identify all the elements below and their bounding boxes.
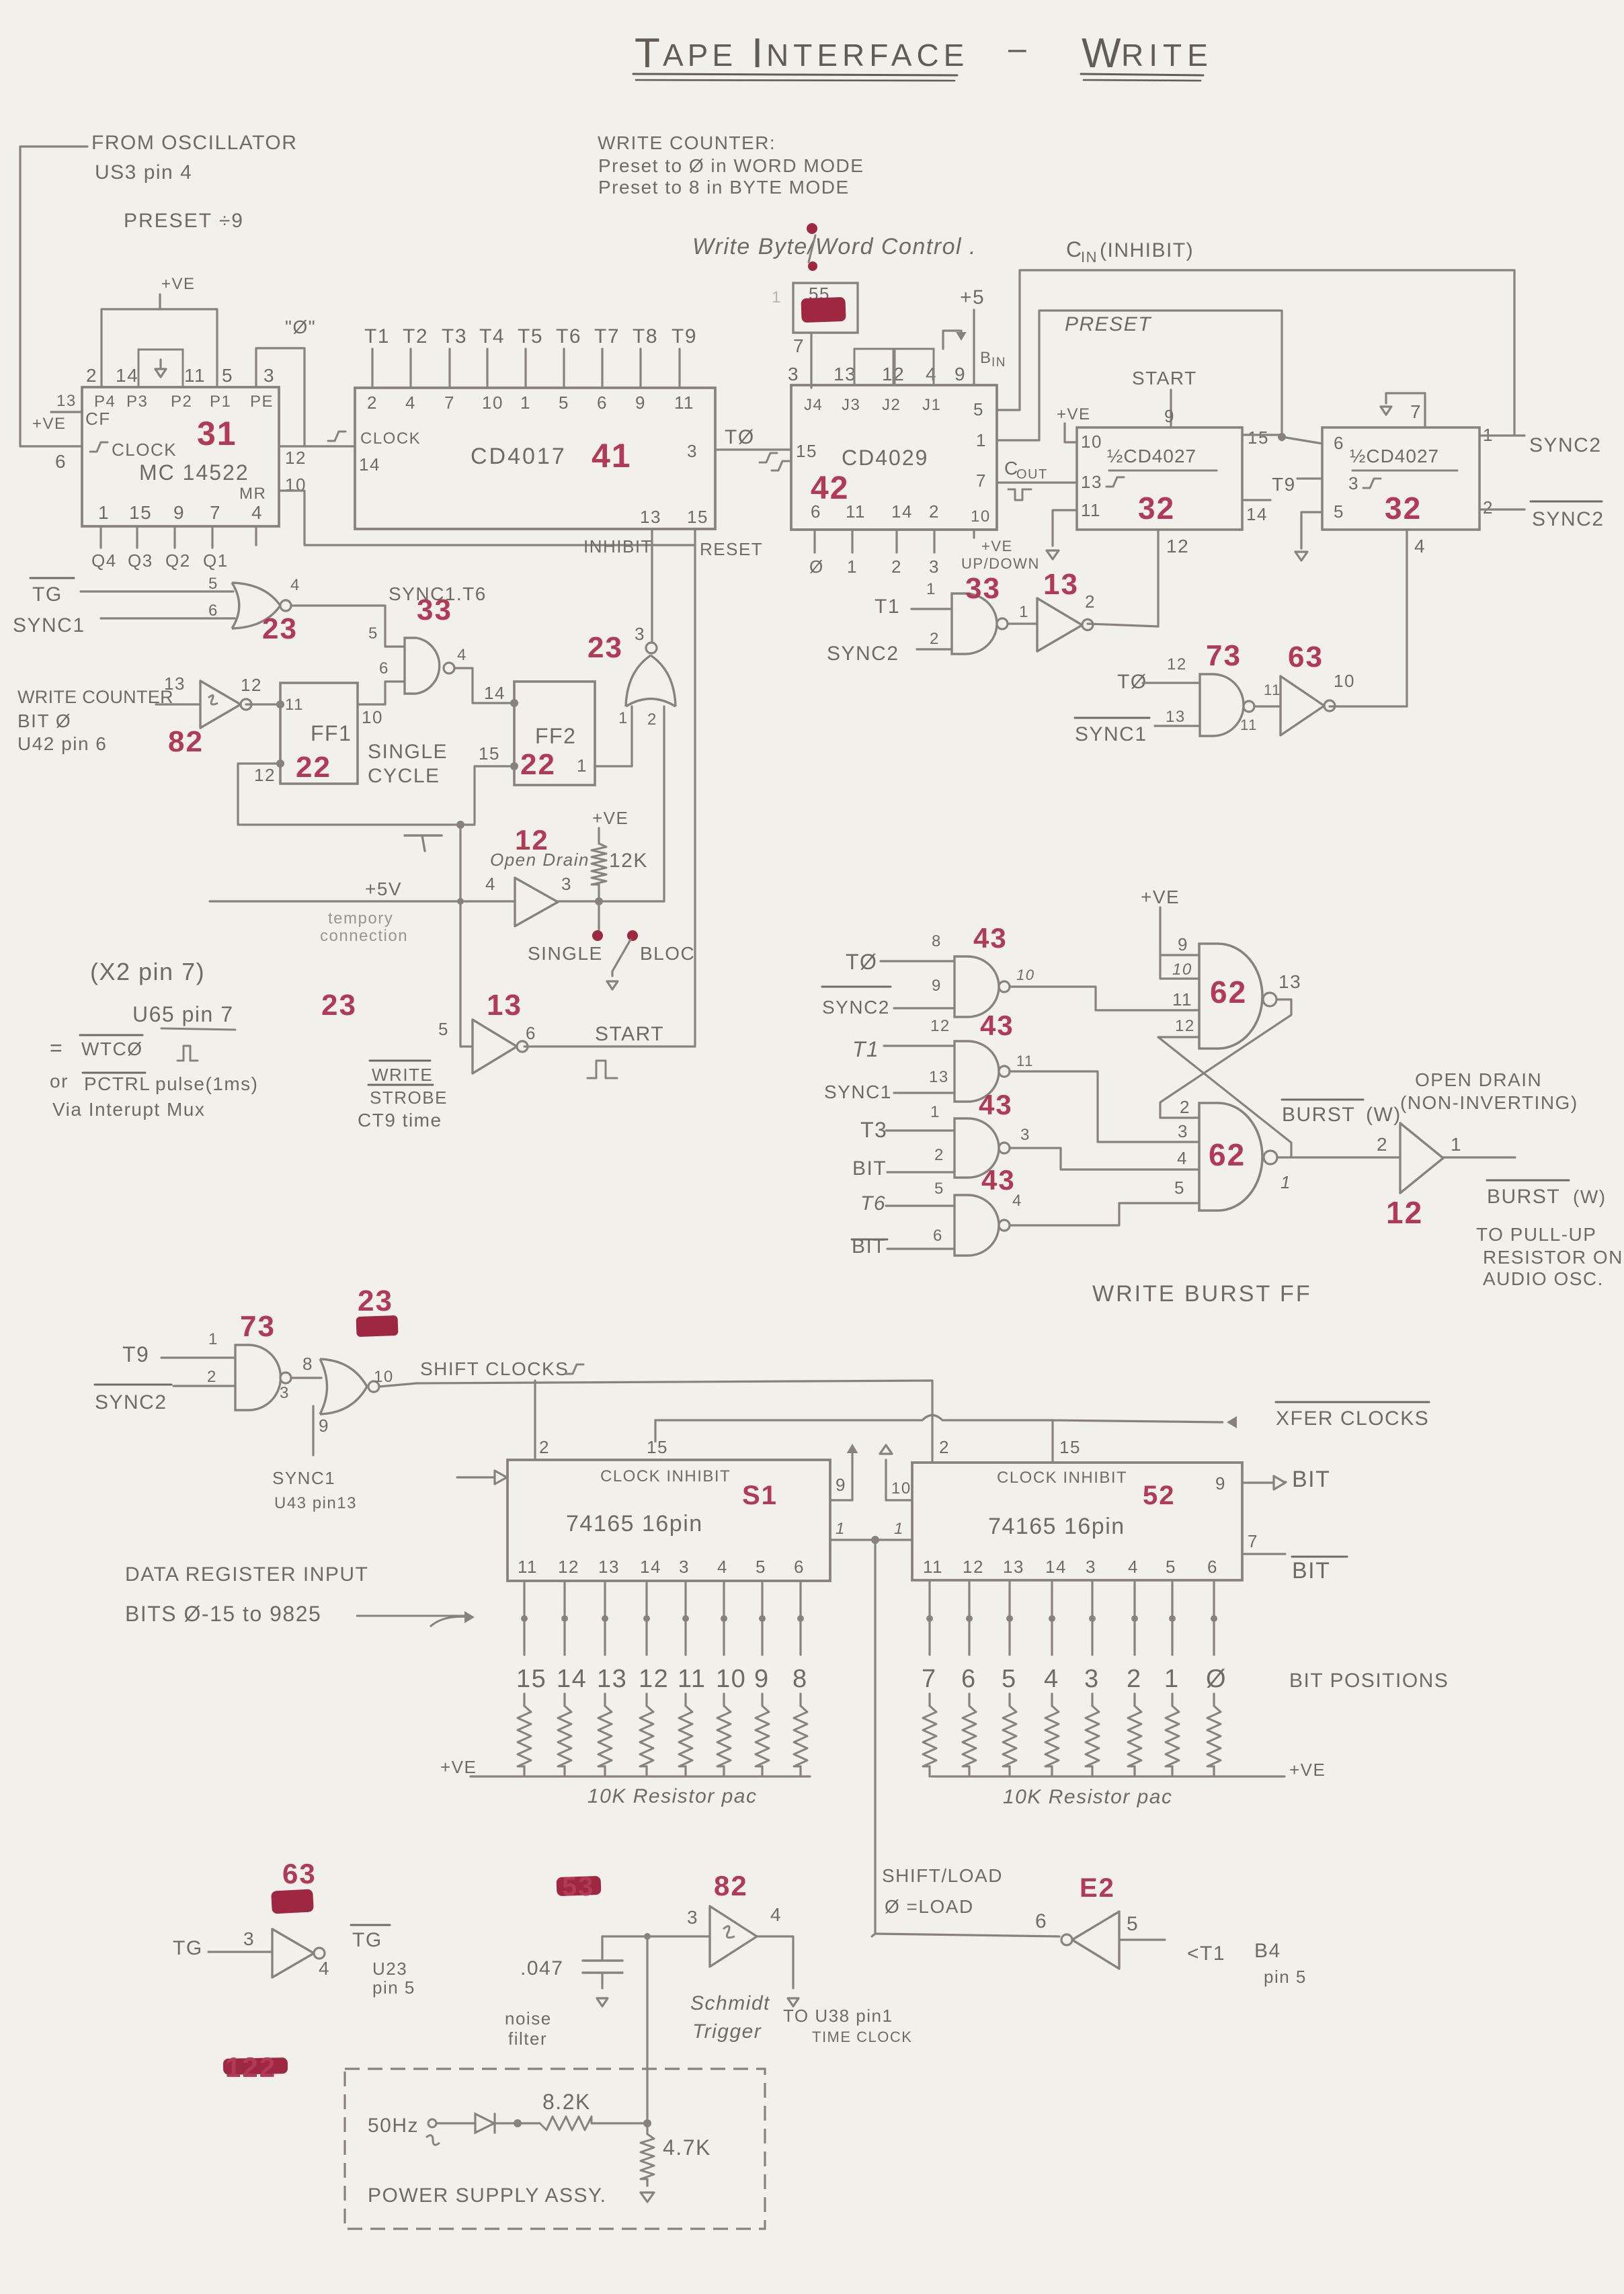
- svg-text:1: 1: [520, 393, 531, 413]
- svg-text:RESISTOR ON: RESISTOR ON: [1483, 1247, 1623, 1268]
- svg-text:6: 6: [55, 451, 67, 472]
- svg-text:14: 14: [557, 1665, 587, 1693]
- svg-text:POWER SUPPLY ASSY.: POWER SUPPLY ASSY.: [368, 2184, 606, 2207]
- svg-text:15: 15: [129, 502, 152, 523]
- svg-text:2: 2: [1127, 1665, 1142, 1693]
- svg-text:SYNC2: SYNC2: [827, 643, 899, 665]
- svg-text:IN: IN: [1081, 249, 1098, 265]
- svg-text:Q4: Q4: [91, 550, 117, 571]
- svg-text:PRESET: PRESET: [1065, 313, 1152, 335]
- svg-text:1: 1: [1164, 1665, 1180, 1693]
- svg-text:pin 5: pin 5: [372, 1977, 415, 1998]
- svg-text:62: 62: [1209, 1137, 1246, 1172]
- svg-text:+VE: +VE: [1289, 1760, 1326, 1780]
- svg-text:UP/DOWN: UP/DOWN: [961, 555, 1040, 572]
- svg-text:7: 7: [922, 1665, 937, 1693]
- svg-text:pin 5: pin 5: [1264, 1967, 1307, 1987]
- svg-text:T6: T6: [860, 1192, 886, 1215]
- svg-text:I: I: [752, 30, 764, 77]
- svg-text:6: 6: [1035, 1910, 1047, 1932]
- svg-text:J2: J2: [882, 396, 901, 414]
- svg-text:6: 6: [811, 501, 821, 522]
- svg-text:J1: J1: [922, 396, 941, 414]
- svg-text:MC 14522: MC 14522: [139, 460, 249, 485]
- svg-text:4: 4: [290, 576, 300, 594]
- svg-text:Ø: Ø: [809, 557, 824, 577]
- svg-text:PRESET ÷9: PRESET ÷9: [124, 210, 244, 232]
- svg-text:6: 6: [597, 393, 608, 413]
- svg-text:9: 9: [173, 502, 185, 523]
- svg-text:5: 5: [438, 1019, 449, 1039]
- svg-text:1: 1: [1019, 603, 1029, 621]
- svg-text:31: 31: [197, 415, 237, 452]
- svg-text:2: 2: [207, 1368, 217, 1386]
- svg-text:1: 1: [836, 1520, 846, 1538]
- svg-text:1: 1: [1451, 1134, 1462, 1155]
- svg-text:B4: B4: [1254, 1940, 1281, 1962]
- svg-text:12: 12: [241, 675, 262, 695]
- svg-text:+VE: +VE: [592, 808, 628, 828]
- svg-text:3: 3: [1020, 1126, 1030, 1144]
- svg-text:or: or: [50, 1071, 69, 1092]
- svg-text:½CD4027: ½CD4027: [1107, 446, 1196, 466]
- svg-text:15: 15: [796, 441, 817, 461]
- svg-text:6: 6: [794, 1557, 805, 1577]
- svg-text:SYNC2: SYNC2: [1532, 508, 1605, 530]
- svg-text:Q2: Q2: [165, 550, 191, 571]
- svg-text:23: 23: [321, 989, 357, 1022]
- svg-text:14: 14: [891, 501, 913, 522]
- svg-text:CLOCK: CLOCK: [112, 440, 177, 460]
- svg-text:SHIFT CLOCKS: SHIFT CLOCKS: [420, 1358, 569, 1379]
- svg-text:11: 11: [1264, 682, 1281, 698]
- svg-text:6: 6: [379, 659, 389, 678]
- svg-text:1: 1: [577, 755, 587, 776]
- svg-text:BITS Ø-15 to 9825: BITS Ø-15 to 9825: [125, 1602, 321, 1626]
- svg-text:U65 pin 7: U65 pin 7: [132, 1002, 233, 1026]
- svg-text:11: 11: [678, 1665, 706, 1693]
- svg-text:5: 5: [368, 624, 378, 643]
- svg-text:10: 10: [1172, 960, 1192, 979]
- svg-text:14: 14: [359, 454, 380, 475]
- svg-text:1: 1: [930, 1103, 940, 1121]
- svg-text:13: 13: [834, 364, 856, 384]
- svg-text:13: 13: [598, 1557, 620, 1577]
- svg-text:13: 13: [1278, 971, 1301, 992]
- svg-text:(W): (W): [1366, 1104, 1402, 1126]
- svg-text:connection: connection: [320, 927, 408, 945]
- svg-text:WRITE COUNTER: WRITE COUNTER: [17, 687, 173, 707]
- svg-text:4: 4: [319, 1958, 330, 1979]
- svg-text:SINGLE: SINGLE: [528, 943, 603, 964]
- svg-text:J3: J3: [842, 396, 860, 414]
- svg-text:11: 11: [518, 1557, 538, 1577]
- svg-text:US3 pin 4: US3 pin 4: [95, 161, 192, 183]
- svg-text:10: 10: [1334, 671, 1355, 691]
- svg-text:33: 33: [965, 572, 1001, 605]
- svg-text:11: 11: [184, 365, 206, 386]
- svg-text:52: 52: [1143, 1481, 1176, 1510]
- svg-text:U23: U23: [372, 1959, 407, 1979]
- svg-text:4.7K: 4.7K: [663, 2135, 711, 2160]
- svg-text:tempory: tempory: [328, 909, 393, 928]
- svg-text:10: 10: [482, 393, 503, 413]
- svg-text:P3: P3: [126, 393, 148, 411]
- svg-text:13: 13: [640, 507, 661, 527]
- svg-text:IN: IN: [991, 356, 1006, 370]
- svg-text:10: 10: [362, 707, 383, 727]
- svg-text:8: 8: [932, 932, 942, 950]
- svg-text:"Ø": "Ø": [285, 317, 316, 337]
- svg-text:4: 4: [1012, 1192, 1022, 1210]
- svg-text:7: 7: [1410, 401, 1422, 422]
- svg-text:Preset to Ø in WORD MODE: Preset to Ø in WORD MODE: [598, 155, 864, 176]
- svg-text:10: 10: [971, 507, 991, 526]
- svg-text:MR: MR: [239, 485, 266, 503]
- svg-text:=: =: [50, 1036, 63, 1060]
- svg-text:U42 pin 6: U42 pin 6: [17, 733, 107, 754]
- svg-text:63: 63: [1288, 641, 1324, 673]
- svg-text:Q1: Q1: [203, 550, 229, 571]
- svg-text:T3: T3: [860, 1118, 887, 1142]
- svg-text:23: 23: [358, 1284, 393, 1317]
- svg-text:T4: T4: [479, 325, 505, 347]
- svg-text:filter: filter: [508, 2029, 547, 2049]
- svg-text:+VE: +VE: [1141, 887, 1180, 907]
- svg-text:START: START: [1132, 368, 1197, 388]
- svg-text:BIT Ø: BIT Ø: [17, 710, 71, 731]
- svg-text:OUT: OUT: [1016, 467, 1048, 482]
- svg-text:T8: T8: [633, 325, 658, 347]
- svg-text:11: 11: [923, 1557, 943, 1577]
- svg-text:+VE: +VE: [1057, 405, 1091, 423]
- svg-text:CD4029: CD4029: [842, 446, 928, 470]
- svg-text:13: 13: [487, 989, 522, 1022]
- svg-text:5: 5: [1127, 1913, 1139, 1935]
- svg-text:41: 41: [592, 437, 632, 475]
- svg-text:(W): (W): [1573, 1186, 1607, 1207]
- svg-text:SINGLE: SINGLE: [368, 741, 448, 763]
- svg-text:TIME CLOCK: TIME CLOCK: [812, 2029, 912, 2045]
- svg-text:2: 2: [939, 1437, 950, 1457]
- svg-text:T9: T9: [672, 325, 697, 347]
- svg-text:9: 9: [1178, 934, 1188, 954]
- svg-text:SYNC2: SYNC2: [95, 1391, 167, 1414]
- svg-text:4: 4: [485, 874, 496, 894]
- svg-text:+VE: +VE: [981, 538, 1013, 555]
- svg-text:Schmidt: Schmidt: [690, 1992, 770, 2014]
- svg-text:3: 3: [788, 364, 799, 384]
- svg-text:4: 4: [405, 393, 416, 413]
- svg-text:5: 5: [934, 1180, 944, 1198]
- svg-text:RITE: RITE: [1121, 38, 1213, 73]
- svg-text:U43 pin13: U43 pin13: [274, 1494, 357, 1512]
- svg-text:43: 43: [979, 1089, 1013, 1120]
- svg-text:32: 32: [1385, 491, 1422, 526]
- svg-text:T: T: [635, 30, 661, 77]
- svg-text:½CD4027: ½CD4027: [1350, 446, 1439, 466]
- svg-text:INHIBIT: INHIBIT: [583, 536, 653, 557]
- svg-text:TO PULL-UP: TO PULL-UP: [1476, 1224, 1596, 1245]
- svg-text:10K Resistor pac: 10K Resistor pac: [587, 1785, 757, 1807]
- svg-text:8.2K: 8.2K: [542, 2090, 591, 2114]
- svg-text:6: 6: [1207, 1557, 1218, 1577]
- svg-text:22: 22: [520, 748, 556, 781]
- svg-text:T2: T2: [403, 325, 428, 347]
- svg-text:SYNC1: SYNC1: [824, 1081, 892, 1102]
- svg-text:BIT: BIT: [1292, 1558, 1330, 1584]
- svg-text:AUDIO OSC.: AUDIO OSC.: [1483, 1268, 1604, 1289]
- svg-text:10: 10: [374, 1368, 394, 1386]
- svg-text:11: 11: [846, 501, 866, 522]
- svg-text:12: 12: [285, 448, 307, 468]
- svg-text:1: 1: [618, 709, 628, 727]
- svg-text:3: 3: [1178, 1121, 1188, 1141]
- svg-text:15: 15: [1248, 427, 1269, 448]
- svg-text:T9: T9: [1272, 474, 1296, 495]
- svg-text:noise: noise: [505, 2008, 552, 2029]
- svg-text:5: 5: [973, 399, 984, 419]
- svg-text:5: 5: [559, 393, 569, 413]
- svg-text:23: 23: [262, 612, 298, 645]
- svg-text:3: 3: [687, 441, 698, 461]
- svg-text:1: 1: [926, 580, 936, 598]
- svg-text:+5V: +5V: [365, 878, 402, 899]
- svg-text:3: 3: [687, 1907, 698, 1928]
- svg-text:J4: J4: [804, 396, 823, 414]
- svg-text:5: 5: [1334, 501, 1344, 522]
- svg-text:82: 82: [714, 1870, 748, 1901]
- svg-text:62: 62: [1210, 975, 1247, 1010]
- svg-text:APE: APE: [663, 38, 737, 73]
- svg-text:SYNC1: SYNC1: [13, 614, 85, 637]
- svg-text:9: 9: [955, 364, 966, 384]
- svg-text:<T1: <T1: [1187, 1942, 1225, 1965]
- svg-text:4: 4: [1414, 536, 1426, 557]
- svg-text:STROBE: STROBE: [370, 1088, 448, 1108]
- svg-text:BIT POSITIONS: BIT POSITIONS: [1289, 1670, 1449, 1692]
- svg-text:6: 6: [961, 1665, 977, 1693]
- svg-text:11: 11: [674, 393, 694, 413]
- svg-text:8: 8: [302, 1354, 313, 1374]
- svg-text:P4: P4: [94, 393, 116, 411]
- svg-text:2: 2: [929, 501, 940, 522]
- svg-text:9: 9: [932, 977, 942, 995]
- svg-text:4: 4: [1177, 1148, 1188, 1168]
- svg-text:12: 12: [930, 1017, 950, 1035]
- svg-text:(INHIBIT): (INHIBIT): [1100, 239, 1194, 261]
- svg-text:10: 10: [891, 1479, 911, 1498]
- svg-text:BIT: BIT: [852, 1235, 886, 1258]
- svg-text:CD4017: CD4017: [471, 444, 567, 469]
- svg-text:BIT: BIT: [852, 1157, 887, 1180]
- svg-text:53: 53: [562, 1872, 595, 1901]
- svg-text:73: 73: [1206, 639, 1242, 672]
- svg-text:START: START: [595, 1023, 664, 1045]
- svg-text:43: 43: [981, 1164, 1016, 1196]
- svg-text:.047: .047: [520, 1957, 563, 1979]
- svg-text:BURST: BURST: [1282, 1104, 1355, 1126]
- svg-text:2: 2: [86, 365, 97, 386]
- svg-text:3: 3: [263, 365, 275, 386]
- svg-text:FF1: FF1: [311, 721, 352, 745]
- svg-text:122: 122: [225, 2051, 276, 2083]
- svg-text:15: 15: [516, 1665, 546, 1693]
- svg-text:7: 7: [210, 502, 221, 523]
- svg-text:+VE: +VE: [32, 415, 67, 433]
- svg-text:3: 3: [561, 874, 572, 894]
- svg-text:Ø =LOAD: Ø =LOAD: [885, 1896, 974, 1917]
- svg-text:14: 14: [116, 365, 138, 386]
- svg-text:12: 12: [1166, 536, 1189, 557]
- svg-text:13: 13: [597, 1665, 627, 1693]
- svg-text:4: 4: [926, 364, 937, 384]
- svg-text:2: 2: [1377, 1134, 1388, 1155]
- svg-text:4: 4: [457, 646, 467, 664]
- svg-text:2: 2: [1483, 497, 1494, 518]
- svg-text:9: 9: [635, 393, 646, 413]
- svg-text:13: 13: [929, 1068, 949, 1086]
- svg-text:3: 3: [1084, 1665, 1100, 1693]
- svg-text:9: 9: [836, 1475, 846, 1495]
- svg-text:FROM OSCILLATOR: FROM OSCILLATOR: [91, 132, 297, 154]
- svg-text:2: 2: [539, 1437, 550, 1457]
- svg-text:B: B: [980, 349, 992, 367]
- svg-text:S1: S1: [742, 1481, 778, 1510]
- svg-text:WRITE COUNTER:: WRITE COUNTER:: [598, 132, 776, 153]
- svg-text:CF: CF: [85, 409, 111, 429]
- svg-text:7: 7: [444, 393, 455, 413]
- svg-text:2: 2: [367, 393, 378, 413]
- svg-text:5: 5: [1166, 1557, 1176, 1577]
- svg-text:PCTRL: PCTRL: [84, 1073, 151, 1094]
- svg-text:13: 13: [56, 392, 77, 410]
- svg-text:13: 13: [1081, 472, 1102, 492]
- svg-text:P2: P2: [171, 393, 192, 411]
- svg-text:TØ: TØ: [725, 426, 755, 448]
- svg-text:11: 11: [1172, 989, 1192, 1010]
- svg-text:T5: T5: [518, 325, 543, 347]
- svg-text:T1: T1: [852, 1037, 879, 1061]
- svg-text:11: 11: [1016, 1053, 1034, 1069]
- svg-text:4: 4: [1128, 1557, 1139, 1577]
- svg-text:6: 6: [933, 1227, 943, 1245]
- svg-text:CLOCK INHIBIT: CLOCK INHIBIT: [997, 1469, 1127, 1487]
- svg-text:E2: E2: [1080, 1873, 1115, 1903]
- svg-text:9: 9: [319, 1416, 329, 1436]
- svg-text:1: 1: [208, 1330, 218, 1348]
- svg-text:3: 3: [1086, 1557, 1096, 1577]
- svg-text:2: 2: [934, 1146, 944, 1164]
- svg-text:22: 22: [296, 751, 331, 784]
- svg-text:3: 3: [280, 1384, 290, 1402]
- svg-text:14: 14: [640, 1557, 661, 1577]
- svg-text:6: 6: [526, 1023, 536, 1043]
- svg-text:13: 13: [1166, 708, 1186, 726]
- svg-text:P1: P1: [210, 393, 231, 411]
- svg-text:Write Byte/Word Control .: Write Byte/Word Control .: [692, 234, 977, 259]
- svg-text:13: 13: [164, 673, 186, 694]
- svg-text:13: 13: [1003, 1557, 1024, 1577]
- svg-text:23: 23: [587, 631, 623, 664]
- svg-text:4: 4: [770, 1904, 782, 1925]
- svg-text:XFER CLOCKS: XFER CLOCKS: [1276, 1407, 1429, 1430]
- svg-text:73: 73: [240, 1310, 276, 1343]
- svg-text:8: 8: [793, 1665, 808, 1693]
- svg-text:Open Drain: Open Drain: [490, 850, 590, 870]
- svg-text:2: 2: [1180, 1097, 1190, 1117]
- svg-text:1: 1: [772, 288, 782, 306]
- svg-text:11: 11: [1081, 500, 1101, 520]
- svg-text:WRITE: WRITE: [372, 1065, 433, 1085]
- svg-text:T6: T6: [556, 325, 581, 347]
- svg-text:14: 14: [484, 683, 505, 703]
- svg-text:–: –: [1008, 31, 1027, 67]
- svg-text:10K Resistor pac: 10K Resistor pac: [1003, 1786, 1172, 1808]
- svg-text:SYNC1: SYNC1: [272, 1468, 335, 1488]
- svg-text:7: 7: [793, 335, 805, 356]
- svg-text:1: 1: [98, 502, 110, 523]
- svg-text:1: 1: [976, 430, 987, 450]
- svg-text:12: 12: [1167, 655, 1187, 673]
- svg-text:+VE: +VE: [161, 275, 196, 293]
- svg-text:Via Interupt Mux: Via Interupt Mux: [52, 1099, 205, 1120]
- svg-text:CLOCK: CLOCK: [360, 429, 421, 448]
- svg-text:74165 16pin: 74165 16pin: [988, 1514, 1125, 1539]
- svg-text:12K: 12K: [609, 850, 648, 872]
- svg-text:4: 4: [1044, 1665, 1059, 1693]
- svg-text:T9: T9: [122, 1342, 149, 1366]
- svg-text:+VE: +VE: [440, 1757, 477, 1777]
- svg-text:12: 12: [963, 1557, 984, 1577]
- svg-text:14: 14: [1246, 504, 1268, 524]
- svg-text:12: 12: [558, 1557, 579, 1577]
- svg-text:1: 1: [894, 1520, 904, 1538]
- svg-text:12: 12: [254, 765, 276, 785]
- svg-text:SYNC2: SYNC2: [1529, 434, 1602, 456]
- svg-text:63: 63: [282, 1858, 317, 1889]
- svg-text:T1: T1: [875, 596, 900, 618]
- svg-text:TO U38 pin1: TO U38 pin1: [783, 2006, 893, 2026]
- svg-text:82: 82: [168, 725, 204, 758]
- svg-text:TG: TG: [173, 1937, 203, 1959]
- svg-text:SYNC2: SYNC2: [822, 997, 890, 1018]
- svg-text:T1: T1: [364, 325, 390, 347]
- svg-text:3: 3: [1348, 473, 1359, 493]
- svg-text:3: 3: [635, 624, 645, 644]
- svg-text:TG: TG: [352, 1929, 382, 1951]
- svg-text:Preset to 8 in BYTE MODE: Preset to 8 in BYTE MODE: [598, 177, 850, 198]
- svg-text:4: 4: [251, 502, 263, 523]
- svg-text:7: 7: [976, 470, 987, 491]
- svg-text:NTERFACE: NTERFACE: [766, 38, 969, 73]
- svg-text:10: 10: [1016, 967, 1034, 983]
- svg-text:11: 11: [285, 696, 304, 714]
- svg-text:33: 33: [417, 593, 452, 626]
- svg-text:(NON-INVERTING): (NON-INVERTING): [1400, 1092, 1578, 1113]
- svg-text:43: 43: [980, 1010, 1014, 1041]
- svg-text:BIT: BIT: [1292, 1467, 1330, 1492]
- svg-text:10: 10: [1081, 432, 1102, 452]
- svg-text:BURST: BURST: [1487, 1186, 1560, 1208]
- svg-text:SHIFT/LOAD: SHIFT/LOAD: [882, 1865, 1003, 1886]
- svg-text:5: 5: [756, 1557, 766, 1577]
- svg-text:RESET: RESET: [700, 539, 763, 559]
- svg-text:CLOCK INHIBIT: CLOCK INHIBIT: [600, 1467, 731, 1485]
- svg-text:pulse(1ms): pulse(1ms): [155, 1073, 258, 1094]
- svg-text:9: 9: [754, 1665, 770, 1693]
- svg-text:DATA REGISTER INPUT: DATA REGISTER INPUT: [125, 1563, 368, 1586]
